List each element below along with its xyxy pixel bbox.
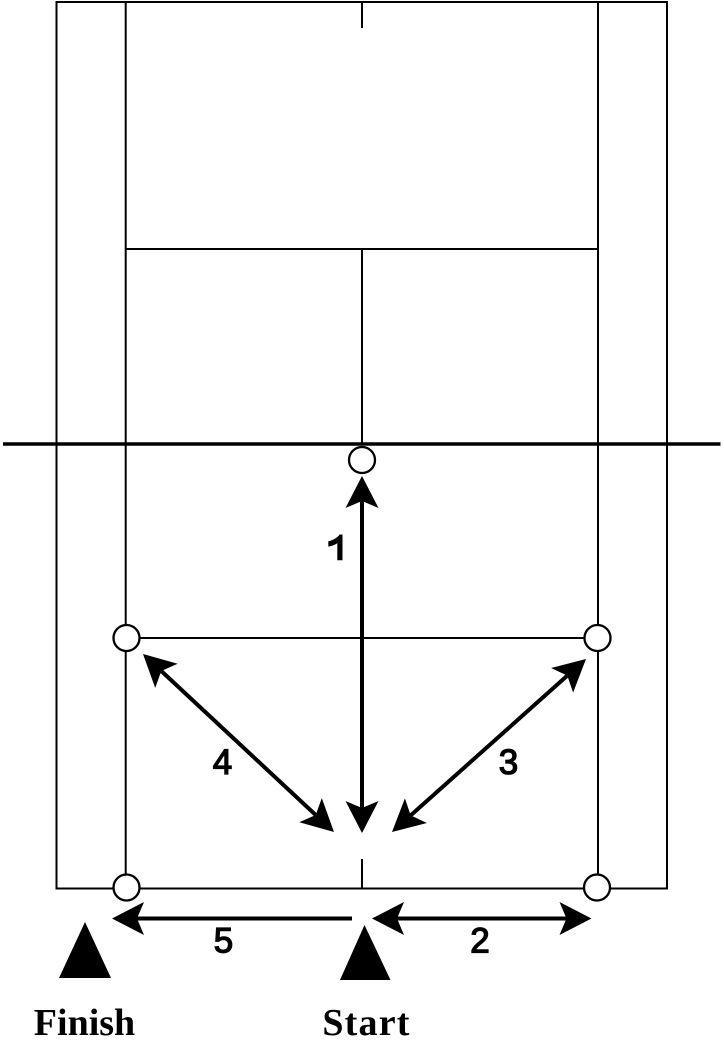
arrow 1 label — [328, 535, 342, 561]
ball marker mid right — [585, 625, 611, 651]
arrow 3 head upper-right — [551, 659, 586, 693]
arrow 4 shaft (diagonal double-headed) — [161, 671, 315, 815]
arrow 2 shaft — [397, 917, 567, 921]
svg-text:5: 5 — [214, 922, 233, 961]
arrow 3 shaft (diagonal double-headed) — [411, 676, 568, 816]
ball marker mid left — [114, 625, 140, 651]
svg-text:Start: Start — [322, 1002, 410, 1038]
arrow 5 head left — [112, 902, 144, 935]
court outer boundary (doubles lines) — [57, 2, 668, 889]
svg-text:4: 4 — [213, 743, 232, 782]
arrow 4 head upper-left — [143, 654, 178, 688]
bottom baseline center mark — [361, 859, 363, 888]
net line — [3, 442, 721, 446]
right singles sideline — [597, 2, 599, 889]
start marker triangle — [340, 925, 391, 980]
ball marker top center — [349, 447, 375, 473]
arrow 2 head left — [372, 902, 404, 935]
top baseline center mark — [361, 2, 363, 28]
ball marker bottom left — [114, 875, 140, 901]
arrow 1 shaft (vertical double-headed) — [360, 501, 364, 808]
svg-text:3: 3 — [499, 743, 518, 782]
svg-text:Finish: Finish — [34, 1002, 135, 1038]
arrow 5 shaft (single head left) — [137, 917, 352, 921]
cone line across court — [127, 637, 598, 639]
svg-text:2: 2 — [470, 922, 489, 961]
arrow 3 head lower-left — [392, 798, 427, 832]
arrow 2 head right — [560, 902, 592, 935]
arrow 4 head lower-right — [299, 798, 334, 832]
ball marker bottom right — [584, 875, 610, 901]
left singles sideline — [125, 2, 127, 889]
center service line (top half) — [361, 249, 363, 444]
arrow 1 head down — [346, 801, 379, 833]
finish marker triangle — [59, 922, 111, 978]
top service line — [126, 248, 598, 250]
arrow 1 head up — [346, 476, 379, 508]
